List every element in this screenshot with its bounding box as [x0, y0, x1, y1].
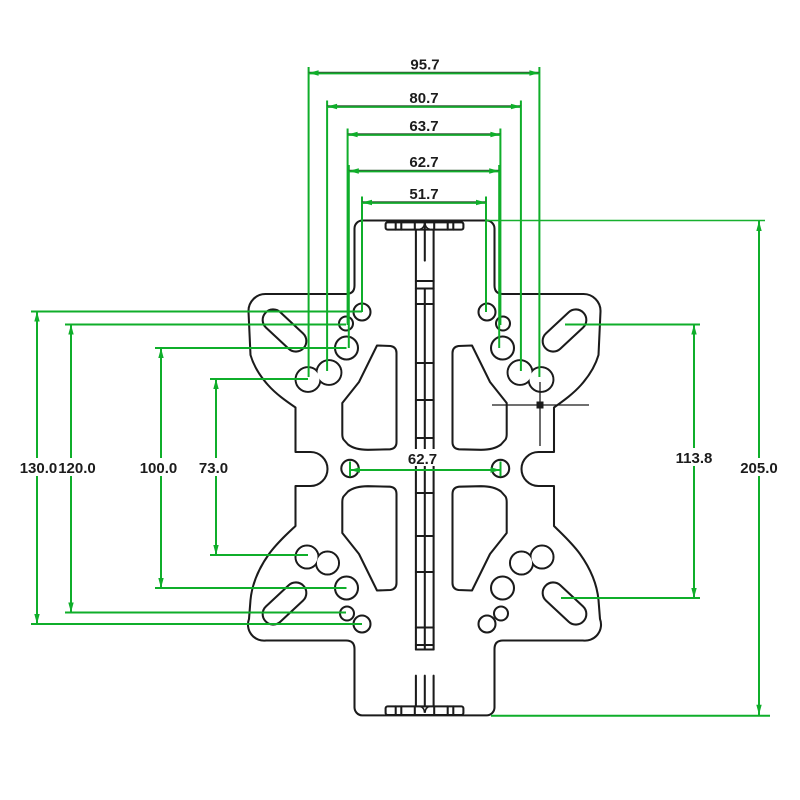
- right dims extension horizontals: [565, 324, 700, 326]
- top dim extension verticals: [308, 67, 310, 377]
- TR lobes: [529, 367, 554, 392]
- bottom bar with tabs: [386, 706, 464, 715]
- arrowheads: [34, 70, 761, 715]
- TL lobes: [296, 367, 321, 392]
- svg-text:130.0: 130.0: [20, 460, 58, 477]
- svg-text:95.7: 95.7: [410, 57, 439, 74]
- 51.7: [362, 200, 372, 205]
- 73.0: [213, 379, 218, 389]
- center notches on top/bottom edge: [420, 223, 430, 713]
- svg-text:80.7: 80.7: [409, 90, 438, 107]
- svg-text:62.7: 62.7: [409, 154, 438, 171]
- crosshair: [492, 382, 589, 446]
- interior cutout lower-left: [342, 486, 396, 590]
- interior cutout upper-right: [453, 346, 507, 450]
- 80.7: [327, 104, 337, 109]
- interior cutout lower-right: [453, 486, 507, 590]
- slot top-left: [258, 305, 310, 356]
- svg-text:120.0: 120.0: [58, 460, 96, 477]
- 130.0: [34, 312, 39, 322]
- svg-text:73.0: 73.0: [199, 460, 228, 477]
- slot bottom-left: [258, 578, 310, 629]
- thin 205 top extension: [486, 220, 765, 222]
- small circles BR: [479, 616, 496, 633]
- 120.0: [68, 325, 73, 335]
- spine rungs: [416, 281, 434, 650]
- 63.7: [348, 132, 358, 137]
- svg-text:62.7: 62.7: [408, 451, 437, 468]
- svg-text:51.7: 51.7: [409, 186, 438, 203]
- outer boundary: [248, 221, 601, 716]
- slot bottom-right: [538, 578, 590, 629]
- mid dim: [350, 469, 501, 471]
- slot top-right: [538, 305, 590, 356]
- right dims verticals: [693, 325, 695, 599]
- 113.8: [691, 325, 696, 335]
- svg-text:205.0: 205.0: [740, 460, 778, 477]
- left dims extension horizontals: [31, 311, 362, 313]
- 100.0: [158, 348, 163, 358]
- BR lobes: [531, 546, 554, 569]
- mid holes: [341, 460, 358, 477]
- interior cutout upper-left: [342, 346, 396, 450]
- 205.0: [756, 221, 761, 231]
- top bar with tabs: [386, 222, 464, 229]
- top dims: [309, 72, 540, 74]
- mid 62.7: [350, 467, 360, 472]
- small circles TL: [354, 304, 371, 321]
- small circles BL: [354, 616, 371, 633]
- svg-text:113.8: 113.8: [676, 450, 713, 467]
- BL lobes: [296, 546, 319, 569]
- 62.7 top: [349, 168, 359, 173]
- small circles TR: [479, 304, 496, 321]
- 95.7: [309, 70, 319, 75]
- svg-text:63.7: 63.7: [409, 118, 438, 135]
- svg-text:100.0: 100.0: [140, 460, 178, 477]
- left dims verticals: [36, 312, 38, 625]
- peanut lobes and circles (white fill to union): [296, 360, 554, 574]
- spine verticals: [415, 230, 417, 650]
